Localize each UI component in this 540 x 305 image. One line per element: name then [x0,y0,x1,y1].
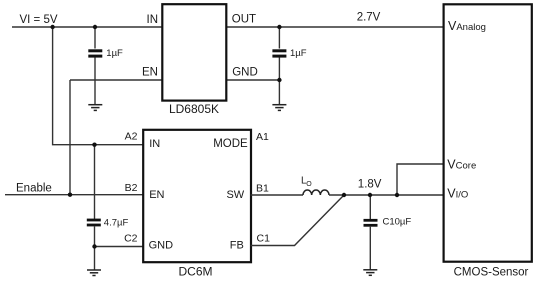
svg-text:A2: A2 [125,131,138,143]
svg-text:VCore: VCore [447,157,476,171]
svg-text:FB: FB [230,239,244,251]
svg-text:EN: EN [142,67,158,79]
svg-text:DC6M: DC6M [178,265,212,279]
ground under 4.7uF [87,270,101,276]
svg-text:A1: A1 [256,131,269,143]
svg-text:C2: C2 [124,232,138,244]
svg-text:VI/O: VI/O [447,187,468,201]
svg-text:4.7µF: 4.7µF [104,217,129,228]
wire vertical EN branch down to Enable rail [69,80,71,195]
node junction OUT-cap [277,25,281,29]
wire LD6805K GND to cap [226,79,279,81]
wire OUT to VAnalog [226,26,444,28]
wire FB with diagonal [251,195,345,246]
wire VI=5V input rail [12,26,162,28]
svg-text:IN: IN [147,14,159,26]
svg-text:B1: B1 [256,182,269,194]
svg-text:1µF: 1µF [290,48,307,59]
svg-text:2.7V: 2.7V [357,11,381,23]
svg-text:GND: GND [232,67,258,79]
svg-text:Enable: Enable [16,182,52,194]
inductor Lo [303,190,329,195]
capacitor C1out 1uF output bypass [272,27,286,105]
node junction C2-cap [92,244,96,248]
wire SW to inductor [251,194,304,196]
wire LD6805K EN left segment [70,79,162,81]
node junction A2-cap [92,143,96,147]
ground under right 1uF [272,105,286,111]
node junction VI-b [93,25,97,29]
svg-text:B2: B2 [125,182,138,194]
svg-text:1µF: 1µF [106,48,123,59]
wire VCore branch [397,164,444,195]
svg-text:C10µF: C10µF [383,216,412,227]
svg-text:VAnalog: VAnalog [448,19,486,33]
node junction cap-1.8V [368,193,372,197]
svg-text:VI = 5V: VI = 5V [20,14,58,26]
node junction FB-1.8V [342,193,346,197]
svg-text:IN: IN [149,138,160,150]
sensor U3 CMOS-Sensor [444,4,532,278]
wire vertical VI branch to DC6M IN [53,27,143,145]
svg-text:GND: GND [149,239,174,251]
capacitor 4.7uF [87,145,101,270]
ground under C10uF [363,270,377,276]
svg-text:C1: C1 [257,232,271,244]
capacitor C1in 1uF input bypass [88,27,102,105]
regulator U1 LD6805K [142,4,258,116]
wire DC6M GND to cap [95,246,144,248]
node junction VCore-branch [395,193,399,197]
capacitor C 10uF output [364,195,378,270]
svg-text:1.8V: 1.8V [358,179,382,191]
svg-text:OUT: OUT [232,13,256,25]
svg-text:O: O [306,181,312,188]
converter U2 DC6M [124,130,270,279]
svg-text:EN: EN [149,189,164,201]
node junction VI-a [50,25,54,29]
svg-text:LD6805K: LD6805K [169,102,219,116]
wire Enable rail [5,194,143,196]
value label Lo [301,176,312,188]
node junction GND-cap [277,78,281,82]
wire inductor to VI/O [329,194,444,196]
svg-text:MODE: MODE [213,138,248,150]
node junction Enable [68,193,72,197]
svg-text:SW: SW [226,189,244,201]
ground under left 1uF [88,105,102,111]
svg-text:CMOS-Sensor: CMOS-Sensor [454,267,529,279]
